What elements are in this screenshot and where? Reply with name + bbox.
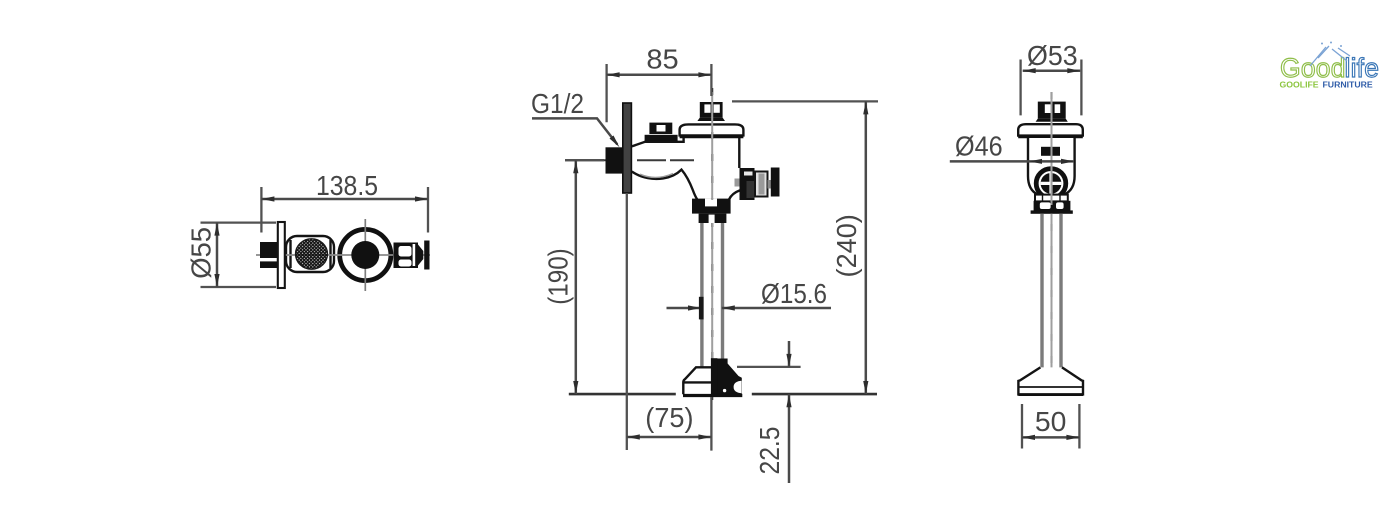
logo bird sketch [1310, 42, 1350, 67]
arm + bowl silhouette [623, 136, 740, 200]
dim Ø53 line [1023, 69, 1081, 72]
top cap nut (front) [700, 102, 723, 118]
svg-text:Ø55: Ø55 [186, 227, 217, 279]
bottom connection nut [699, 214, 727, 223]
outlet underside and bowl right curve [729, 191, 747, 200]
dim (240) top extension [732, 100, 878, 102]
svg-text:85: 85 [646, 43, 678, 74]
G1/2 leader [532, 118, 617, 144]
barrel end seam lines [291, 240, 331, 268]
dim 138.5 line [261, 198, 428, 201]
push button ring [1036, 169, 1066, 199]
bottom connection flange [692, 199, 731, 214]
dim 22.5 lower stub arrow [788, 394, 791, 483]
bonnet dome (front) [680, 124, 744, 135]
dim 138.5 extension lines [261, 187, 428, 233]
dim 22.5 upper stub arrow [788, 341, 791, 367]
dim 85 extension lines [607, 64, 712, 122]
outlet connector nut (top view) [394, 243, 419, 269]
outlet middle ring [755, 172, 768, 197]
svg-text:FURNITURE: FURNITURE [1323, 79, 1373, 89]
dim 50 line [1022, 436, 1079, 439]
left view horizontal centerline [256, 254, 430, 256]
dim Ø55 extension lines [201, 223, 277, 287]
dim (75) line [627, 436, 712, 439]
arm top edge [632, 142, 684, 147]
push button disc with cross [1041, 173, 1062, 194]
dim Ø46 left arrow [1029, 159, 1042, 164]
spud bottom edge [683, 394, 742, 397]
G1/2 arrowhead [610, 136, 620, 148]
wall flange plate (top view) [278, 222, 285, 288]
dim 22.5 top extension [737, 366, 801, 368]
dim (75) extension lines [627, 193, 712, 451]
downtube outer walls (front) [702, 223, 723, 367]
right view vertical centerline [1050, 92, 1052, 400]
svg-text:G1/2: G1/2 [531, 88, 584, 119]
dim 50 extension lines [1022, 404, 1079, 449]
front view vertical centerline [711, 88, 713, 400]
downtube centerline gray core (side) [1051, 92, 1053, 396]
svg-text:50: 50 [1035, 406, 1067, 437]
spud center section bar [711, 358, 718, 397]
inlet axis centerline [565, 159, 629, 161]
downtube centerline gray core [711, 92, 713, 395]
svg-text:Ø53: Ø53 [1027, 40, 1078, 71]
svg-text:Ø15.6: Ø15.6 [761, 278, 827, 309]
outlet connector stub 2 [768, 180, 772, 189]
hatched gland (top view) [296, 239, 328, 269]
body left wall [682, 138, 684, 143]
left service nut [649, 123, 672, 134]
left nut flange [645, 135, 678, 141]
downtube outer walls (side) [1042, 214, 1061, 369]
dim Ø53 extension lines [1021, 60, 1082, 116]
main cap circle (top view) [340, 229, 391, 280]
outlet stub [735, 179, 741, 187]
coupling nut (side) [1034, 201, 1071, 211]
svg-text:138.5: 138.5 [316, 170, 378, 201]
inlet nut (top view) [260, 242, 277, 268]
floor line right segment [752, 393, 877, 396]
left view vertical crosshair [364, 219, 366, 291]
top cap nut (side) [1038, 102, 1066, 119]
floor line left segment [569, 393, 676, 396]
valve body barrel (top view) [286, 236, 334, 272]
svg-text:22.5: 22.5 [754, 427, 785, 475]
arm inner shadow curve [640, 174, 673, 178]
window mark on body [1041, 147, 1060, 156]
svg-text:GOOLIFE: GOOLIFE [1280, 79, 1319, 89]
dim Ø15.6 left line [667, 307, 702, 310]
arm bottom edge and bowl left curve [632, 170, 697, 200]
svg-text:(190): (190) [542, 248, 573, 305]
dim 85 line [607, 74, 712, 77]
spud base right half sectioned (front) [712, 359, 742, 397]
dim (240) line [865, 101, 868, 394]
outlet end fitting (top view) [418, 245, 423, 266]
outlet coupling nut (front) [740, 168, 755, 200]
svg-text:(240): (240) [831, 214, 862, 277]
svg-text:Ø46: Ø46 [955, 131, 1003, 162]
inlet nut (front) [606, 147, 626, 173]
dim Ø15.6 arrow bar [699, 297, 704, 320]
spud base left half (front) [683, 367, 711, 394]
bonnet dome (side) [1018, 124, 1083, 135]
wall flange plate (front) [623, 103, 632, 193]
dim (190) line [575, 160, 578, 394]
hex collar (side) [1035, 195, 1068, 202]
body right wall [738, 138, 740, 168]
svg-text:(75): (75) [645, 402, 693, 433]
center disc of cap circle [351, 241, 379, 269]
base (side) [1018, 367, 1083, 394]
dim Ø15.6 right line [722, 307, 831, 310]
dim Ø46 leader line [950, 160, 1074, 163]
body (side) [1028, 138, 1075, 194]
outlet end cap [771, 168, 780, 197]
dim (190) top extension [565, 159, 604, 161]
dim Ø55 line [216, 223, 219, 287]
